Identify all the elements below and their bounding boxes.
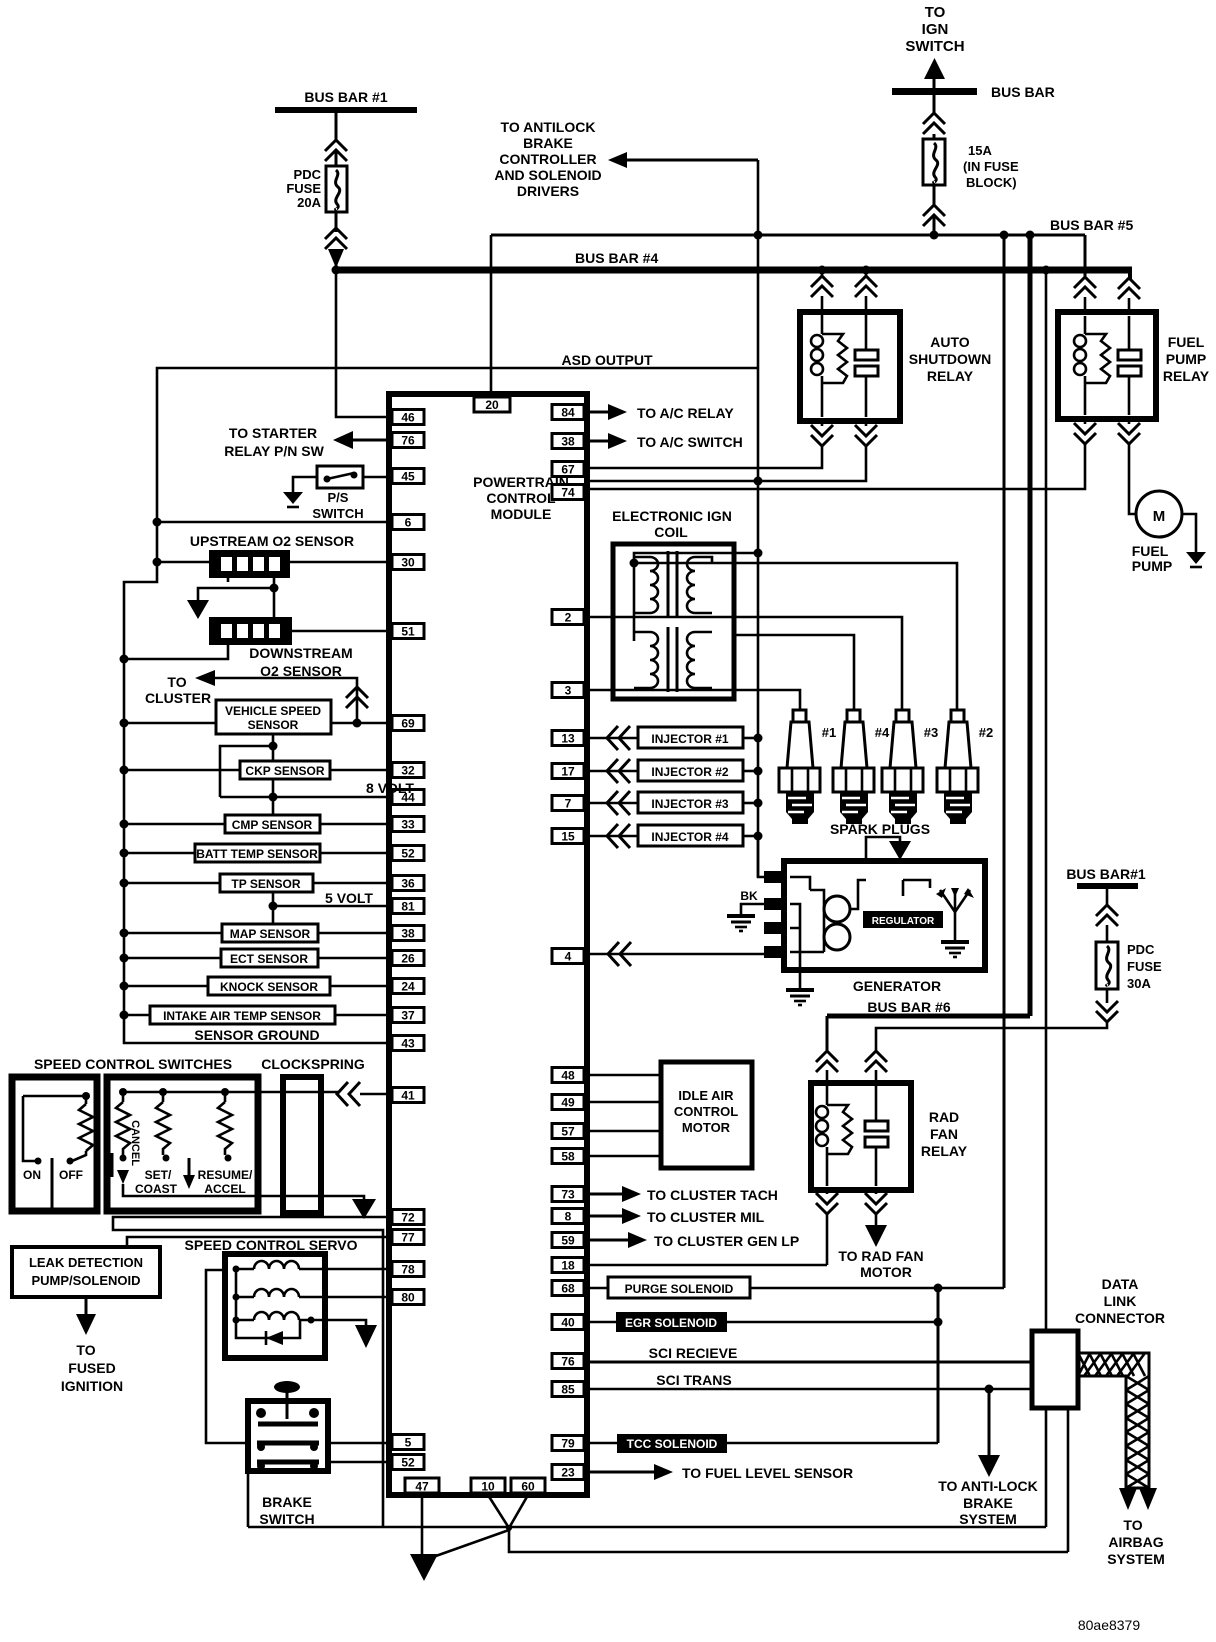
pin 47 (bottom) bbox=[405, 1478, 439, 1493]
ground (generator case) bbox=[786, 990, 814, 1005]
pin 3 (right) bbox=[552, 683, 584, 698]
svg-text:57: 57 bbox=[561, 1125, 575, 1139]
node dot bus5/x1004 bbox=[1000, 231, 1009, 240]
node BUS BAR #1 (top left) bbox=[275, 89, 417, 113]
pin 79 (right) bbox=[552, 1436, 584, 1451]
svg-text:CONTROLLER: CONTROLLER bbox=[499, 151, 596, 167]
wire vertical x1004 from bus5 down to purge solenoid line bbox=[1003, 235, 1006, 1288]
svg-text:ELECTRONIC IGN: ELECTRONIC IGN bbox=[612, 508, 732, 524]
label/wire SCI TRANS (pin 85) bbox=[584, 1372, 1032, 1389]
wire BK ground stub bbox=[740, 889, 764, 914]
pin 40 (right) bbox=[552, 1315, 584, 1330]
pin 49 (right) bbox=[552, 1095, 584, 1110]
pin 48 (right) bbox=[552, 1068, 584, 1083]
svg-text:TO FUEL LEVEL SENSOR: TO FUEL LEVEL SENSOR bbox=[682, 1465, 853, 1481]
svg-text:SENSOR: SENSOR bbox=[248, 718, 299, 732]
node dot SCI TRANS branch bbox=[985, 1385, 994, 1394]
svg-text:FUSE: FUSE bbox=[1127, 959, 1162, 974]
wire bus4 right corner down to fuel pump relay contact bbox=[1128, 270, 1132, 280]
node dot bus4/ASD coil leg bbox=[818, 266, 827, 275]
arrow down (pin 47 ground) bbox=[410, 1554, 438, 1581]
svg-text:68: 68 bbox=[561, 1282, 575, 1296]
svg-text:BATT TEMP SENSOR: BATT TEMP SENSOR bbox=[196, 847, 318, 861]
svg-text:IGNITION: IGNITION bbox=[61, 1378, 123, 1394]
svg-text:BK: BK bbox=[740, 889, 758, 903]
svg-text:36: 36 bbox=[401, 877, 415, 891]
svg-text:SCI RECIEVE: SCI RECIEVE bbox=[649, 1345, 738, 1361]
svg-text:CONTROL: CONTROL bbox=[486, 490, 556, 506]
svg-text:TO: TO bbox=[925, 4, 946, 21]
svg-text:3: 3 bbox=[565, 684, 572, 698]
svg-text:TCC SOLENOID: TCC SOLENOID bbox=[627, 1437, 718, 1451]
sensor VEHICLE SPEED SENSOR bbox=[120, 700, 393, 734]
svg-text:FUSE: FUSE bbox=[286, 181, 321, 196]
pin 45 (left) bbox=[392, 469, 424, 484]
svg-text:SPEED CONTROL SERVO: SPEED CONTROL SERVO bbox=[185, 1237, 358, 1253]
ground (P/S switch) bbox=[283, 492, 303, 507]
pin 5 (left) bbox=[392, 1435, 424, 1450]
pin 78 (left) bbox=[392, 1262, 424, 1277]
svg-text:INJECTOR #3: INJECTOR #3 bbox=[651, 797, 728, 811]
svg-text:60: 60 bbox=[521, 1480, 535, 1494]
svg-text:PUMP: PUMP bbox=[1132, 558, 1172, 574]
sensor MAP SENSOR bbox=[120, 924, 393, 942]
svg-text:13: 13 bbox=[561, 732, 575, 746]
svg-text:TO RAD FAN: TO RAD FAN bbox=[838, 1248, 923, 1264]
wire rad fan relay contact output to motor bbox=[875, 1190, 878, 1194]
svg-text:RELAY: RELAY bbox=[1163, 368, 1210, 384]
wire O2 signal to ground arrow bbox=[198, 588, 274, 601]
svg-text:20A: 20A bbox=[297, 195, 321, 210]
pin 2 (right) bbox=[552, 610, 584, 625]
connector chevron (clockspring, pin 41) bbox=[337, 1082, 360, 1106]
svg-text:BUS BAR#1: BUS BAR#1 bbox=[1066, 866, 1146, 882]
pin 77 (left) bbox=[392, 1230, 424, 1245]
svg-text:(IN FUSE: (IN FUSE bbox=[963, 159, 1019, 174]
svg-text:81: 81 bbox=[401, 900, 415, 914]
wire ASD relay contact output: down, left along y481 bbox=[865, 421, 868, 426]
arrow down TO RAD FAN MOTOR bbox=[838, 1225, 923, 1280]
svg-text:77: 77 bbox=[401, 1231, 415, 1245]
component SPEED CONTROL SERVO (3 solenoid coils + diode) bbox=[225, 1254, 325, 1358]
pin 59 (right) bbox=[552, 1233, 584, 1248]
component ELECTRONIC IGN COIL (dual transformer) bbox=[613, 544, 758, 699]
node dot coil feed on x758 bbox=[754, 549, 763, 558]
svg-text:AUTO: AUTO bbox=[930, 334, 970, 350]
arrows down TO AIRBAG SYSTEM bbox=[1107, 1488, 1165, 1567]
svg-text:FAN: FAN bbox=[930, 1126, 958, 1142]
pin 60 (bottom) bbox=[511, 1478, 545, 1493]
pin 57 (right) bbox=[552, 1124, 584, 1139]
arrow down TO ANTI-LOCK BRAKE SYSTEM bbox=[938, 1455, 1038, 1527]
svg-text:DATA: DATA bbox=[1102, 1276, 1139, 1292]
svg-text:LINK: LINK bbox=[1104, 1293, 1137, 1309]
svg-text:PUMP: PUMP bbox=[1166, 351, 1206, 367]
svg-text:45: 45 bbox=[401, 470, 415, 484]
node dot rail/pin6 bbox=[153, 518, 162, 527]
pin 44 (left) bbox=[392, 790, 424, 805]
node BUS BAR (crossbar) bbox=[892, 84, 1055, 100]
arrow down TO FUSED IGNITION bbox=[61, 1297, 123, 1394]
svg-text:TO: TO bbox=[1123, 1517, 1142, 1533]
sensor CKP SENSOR bbox=[120, 761, 393, 779]
svg-text:BUS BAR #5: BUS BAR #5 bbox=[1050, 217, 1133, 233]
svg-text:52: 52 bbox=[401, 1456, 415, 1470]
svg-text:CMP SENSOR: CMP SENSOR bbox=[232, 818, 313, 832]
connector chevron on cluster feed bbox=[346, 687, 368, 708]
svg-text:SCI TRANS: SCI TRANS bbox=[656, 1372, 731, 1388]
svg-text:ASD OUTPUT: ASD OUTPUT bbox=[562, 352, 653, 368]
svg-text:23: 23 bbox=[561, 1466, 575, 1480]
pin 20 (top) bbox=[474, 397, 510, 412]
node BUS BAR#1 (right) bbox=[1066, 866, 1146, 889]
wire pin 72 path bbox=[113, 1217, 392, 1527]
ground (generator BK) bbox=[727, 916, 755, 931]
pin 26 (left) bbox=[392, 951, 424, 966]
svg-text:BRAKE: BRAKE bbox=[523, 135, 573, 151]
svg-text:KNOCK SENSOR: KNOCK SENSOR bbox=[220, 980, 318, 994]
svg-text:8: 8 bbox=[565, 1210, 572, 1224]
node V junction bbox=[506, 1525, 512, 1531]
wire servo row3 to ground arrow bbox=[325, 1320, 366, 1327]
svg-text:INJECTOR #1: INJECTOR #1 bbox=[651, 732, 728, 746]
pin 15 (right) bbox=[552, 829, 584, 844]
sensor INTAKE AIR TEMP SENSOR bbox=[120, 1006, 393, 1024]
svg-text:73: 73 bbox=[561, 1188, 575, 1202]
connector chevron below fuse 20A bbox=[325, 228, 347, 249]
svg-text:BUS BAR #6: BUS BAR #6 bbox=[867, 999, 950, 1015]
svg-text:BUS BAR #4: BUS BAR #4 bbox=[575, 250, 658, 266]
pin 32 (left) bbox=[392, 763, 424, 778]
wire from bus bar #1 down to PDC fuse 20A bbox=[335, 113, 338, 140]
pin 81 (left) bbox=[392, 899, 424, 914]
wire bus5 right corner down to fuel pump relay coil bbox=[1084, 235, 1087, 278]
svg-text:UPSTREAM O2 SENSOR: UPSTREAM O2 SENSOR bbox=[190, 533, 354, 549]
pin 85 (right) bbox=[552, 1382, 584, 1397]
svg-text:AND SOLENOID: AND SOLENOID bbox=[494, 167, 601, 183]
svg-text:37: 37 bbox=[401, 1009, 415, 1023]
pin 43 (left) bbox=[392, 1036, 424, 1051]
svg-text:6: 6 bbox=[405, 516, 412, 530]
svg-text:RELAY P/N SW: RELAY P/N SW bbox=[224, 443, 324, 459]
svg-text:DOWNSTREAM: DOWNSTREAM bbox=[249, 645, 352, 661]
wire pin 6 from ASD rail bbox=[157, 521, 392, 524]
svg-text:TO: TO bbox=[76, 1342, 95, 1358]
wire vertical x938 bbox=[937, 1288, 940, 1443]
svg-text:MODULE: MODULE bbox=[491, 506, 552, 522]
wire bbox=[933, 134, 936, 139]
PCM bottom pin boxes bbox=[405, 1478, 545, 1494]
wire pin 47 down to ground arrow bbox=[421, 1495, 424, 1555]
wire pin 77 to leak detection pump bbox=[127, 1237, 392, 1247]
svg-text:AIRBAG: AIRBAG bbox=[1108, 1534, 1163, 1550]
pin 68 (right) bbox=[552, 1281, 584, 1296]
pin 23 (right) bbox=[552, 1465, 584, 1480]
svg-text:TO A/C RELAY: TO A/C RELAY bbox=[637, 405, 734, 421]
switch BRAKE SWITCH bbox=[248, 1381, 328, 1527]
node dot x758 on ASD output wire bbox=[754, 477, 763, 486]
spark plug #3 bbox=[882, 710, 938, 824]
svg-text:COAST: COAST bbox=[135, 1182, 178, 1196]
svg-text:33: 33 bbox=[401, 818, 415, 832]
svg-text:CANCEL: CANCEL bbox=[129, 1120, 141, 1166]
wire pin 2 to coil primary / spark plug #3 feed bbox=[588, 617, 902, 712]
svg-text:BRAKE: BRAKE bbox=[262, 1494, 312, 1510]
switch assembly SET/COAST RESUME/ACCEL CANCEL bbox=[107, 1077, 258, 1211]
svg-text:SPARK PLUGS: SPARK PLUGS bbox=[830, 821, 930, 837]
spark plug #1 bbox=[779, 710, 836, 824]
svg-text:76: 76 bbox=[561, 1355, 575, 1369]
wire coil secondary to spark plug #4 bbox=[734, 635, 854, 712]
wire rad fan relay coil return down to pin 18 wire bbox=[826, 1190, 829, 1194]
svg-text:IGN: IGN bbox=[922, 21, 949, 38]
wire bottom run (to data link connector leg A) bbox=[248, 1526, 1046, 1529]
label DOWNSTREAM O2 SENSOR bbox=[249, 645, 352, 679]
wire brake feed down to bottom run bbox=[247, 1471, 250, 1527]
svg-text:CONTROL: CONTROL bbox=[674, 1104, 738, 1119]
svg-text:MAP SENSOR: MAP SENSOR bbox=[230, 927, 311, 941]
wire downstream O2 to pin 51 bbox=[292, 630, 392, 633]
wire fuel pump relay contact output to fuel pump motor bbox=[1128, 419, 1131, 424]
svg-text:20: 20 bbox=[485, 398, 499, 412]
motor M1 FUEL PUMP bbox=[1132, 491, 1182, 574]
svg-text:30A: 30A bbox=[1127, 976, 1151, 991]
svg-text:GENERATOR: GENERATOR bbox=[853, 978, 941, 994]
wire SCI TRANS down to anti-lock arrow bbox=[988, 1389, 991, 1456]
wire brake switch to pin 52 bbox=[328, 1461, 392, 1464]
injector INJECTOR #4 bbox=[586, 824, 763, 848]
node dot bus4/ASD contact leg bbox=[862, 266, 871, 275]
svg-text:O2 SENSOR: O2 SENSOR bbox=[260, 663, 342, 679]
pin 74 (right) bbox=[552, 485, 584, 500]
svg-text:TO ANTI-LOCK: TO ANTI-LOCK bbox=[938, 1478, 1038, 1494]
label/arrow TO CLUSTER (vehicle speed) bbox=[145, 670, 357, 723]
injector INJECTOR #2 bbox=[586, 759, 763, 783]
svg-text:15A: 15A bbox=[968, 143, 992, 158]
wire brake switch to pin 5 bbox=[328, 1442, 392, 1445]
pin 67 (right) bbox=[552, 462, 584, 477]
svg-text:32: 32 bbox=[401, 764, 415, 778]
label/wire SCI RECIEVE (pin 76) bbox=[584, 1345, 1032, 1362]
svg-text:SWITCH: SWITCH bbox=[312, 506, 363, 521]
svg-text:49: 49 bbox=[561, 1096, 575, 1110]
svg-text:5 VOLT: 5 VOLT bbox=[325, 890, 373, 906]
pin 73 (right) bbox=[552, 1187, 584, 1202]
label TO ANTILOCK BRAKE CONTROLLER AND SOLENOID DRIVERS bbox=[494, 119, 601, 199]
node dot bus5/x758 bbox=[754, 231, 763, 240]
pin 13 (right) bbox=[552, 731, 584, 746]
sensor TP SENSOR bbox=[120, 874, 393, 892]
svg-text:26: 26 bbox=[401, 952, 415, 966]
svg-text:ECT SENSOR: ECT SENSOR bbox=[230, 952, 308, 966]
svg-text:SWITCH: SWITCH bbox=[259, 1511, 314, 1527]
svg-text:COIL: COIL bbox=[654, 524, 688, 540]
wire TP to MAP bbox=[272, 891, 275, 925]
svg-text:47: 47 bbox=[415, 1480, 429, 1494]
pin 52 (left) bbox=[392, 846, 424, 861]
pin 80 (left) bbox=[392, 1290, 424, 1305]
svg-text:FUEL: FUEL bbox=[1168, 334, 1205, 350]
wire below fuse 30A bbox=[1106, 989, 1109, 1003]
injector INJECTOR #3 bbox=[586, 791, 763, 815]
connector upstream O2 sensor bbox=[209, 550, 290, 578]
pin 76 (left) bbox=[392, 433, 424, 448]
wire servo row2 to pin 80 bbox=[325, 1296, 392, 1299]
fuse F2 15A (IN FUSE BLOCK) bbox=[923, 139, 1019, 190]
svg-text:PURGE SOLENOID: PURGE SOLENOID bbox=[625, 1282, 734, 1296]
pin 69 (left) bbox=[392, 716, 424, 731]
connector chevron below fuse 15A bbox=[923, 205, 945, 226]
wire fuel pump motor to ground bbox=[1182, 514, 1196, 552]
wire x758 rail into generator stub 1 bbox=[758, 836, 766, 877]
svg-text:TO CLUSTER GEN LP: TO CLUSTER GEN LP bbox=[654, 1233, 799, 1249]
arrow down (O2 ground) bbox=[187, 600, 209, 619]
svg-text:TO CLUSTER TACH: TO CLUSTER TACH bbox=[647, 1187, 778, 1203]
node dot VSS/cluster bbox=[353, 719, 362, 728]
node dot purge/x938 bbox=[934, 1284, 943, 1293]
node dot bus5/fuse15A bbox=[930, 231, 939, 240]
pin 46 (left) bbox=[392, 410, 424, 425]
wire VSS to CKP 8-volt feed bbox=[272, 734, 275, 762]
svg-text:ACCEL: ACCEL bbox=[204, 1182, 245, 1196]
svg-text:TO A/C SWITCH: TO A/C SWITCH bbox=[637, 434, 743, 450]
svg-text:#3: #3 bbox=[924, 725, 938, 740]
wire fuse 30A run to rad fan relay contact bbox=[876, 1022, 1107, 1052]
spark plug #2 bbox=[937, 710, 993, 824]
wire V junction down and right (to DLC leg B) bbox=[509, 1528, 1068, 1552]
svg-text:30: 30 bbox=[401, 556, 415, 570]
svg-text:OFF: OFF bbox=[59, 1168, 83, 1182]
svg-text:TO CLUSTER MIL: TO CLUSTER MIL bbox=[647, 1209, 765, 1225]
label 5 VOLT / wire pin 81 bbox=[273, 905, 392, 908]
wire pin20 feed: vertical from bus5 corner down to PCM pin 20 bbox=[490, 235, 493, 397]
svg-text:80ae8379: 80ae8379 bbox=[1078, 1617, 1141, 1633]
label/arrow TO STARTER RELAY P/N SW (pin 76 left) bbox=[224, 425, 392, 459]
svg-text:38: 38 bbox=[561, 435, 575, 449]
svg-text:18: 18 bbox=[561, 1259, 575, 1273]
svg-text:41: 41 bbox=[401, 1089, 415, 1103]
wire bbox=[335, 152, 338, 166]
arrow to antilock brake controller bbox=[608, 152, 627, 168]
label TO IGN SWITCH bbox=[905, 4, 964, 55]
svg-text:51: 51 bbox=[401, 625, 415, 639]
svg-text:2: 2 bbox=[565, 611, 572, 625]
svg-text:MOTOR: MOTOR bbox=[860, 1264, 912, 1280]
svg-text:INJECTOR #2: INJECTOR #2 bbox=[651, 765, 728, 779]
pin 8 (right) bbox=[552, 1209, 584, 1224]
pin 17 (right) bbox=[552, 764, 584, 779]
connector downstream O2 sensor bbox=[209, 617, 292, 645]
svg-text:SENSOR GROUND: SENSOR GROUND bbox=[194, 1027, 319, 1043]
svg-text:RAD: RAD bbox=[929, 1109, 959, 1125]
wire upstream O2 bottom-left pin down to rail jog bbox=[227, 578, 230, 582]
connector chevron above fuse 20A bbox=[325, 140, 347, 161]
wire upstream O2 to pin 30 bbox=[157, 561, 209, 564]
pin 38 (right) bbox=[552, 434, 584, 449]
wire vertical x1030 thick from bus5 down to bus bar #6 bbox=[1028, 235, 1033, 1016]
arrow TO A/C RELAY (pin 84) bbox=[584, 404, 734, 421]
pin 4 (right) bbox=[552, 949, 584, 964]
PCM right pin boxes bbox=[552, 405, 584, 1480]
pin 37 (left) bbox=[392, 1008, 424, 1023]
svg-text:PDC: PDC bbox=[1127, 942, 1155, 957]
svg-text:40: 40 bbox=[561, 1316, 575, 1330]
svg-text:INJECTOR #4: INJECTOR #4 bbox=[651, 830, 728, 844]
solenoid PURGE SOLENOID (pin 68) bbox=[584, 1277, 1004, 1298]
component LEAK DETECTION PUMP/SOLENOID bbox=[12, 1247, 160, 1297]
svg-text:79: 79 bbox=[561, 1437, 575, 1451]
arrow TO CLUSTER TACH (pin 73) bbox=[584, 1186, 778, 1203]
svg-text:SWITCH: SWITCH bbox=[905, 38, 964, 55]
node dot rail/downstream bbox=[120, 655, 129, 664]
wire vertical feed x758 (antilock/ASD rail) bbox=[757, 160, 760, 877]
module PCM POWERTRAIN CONTROL MODULE bbox=[389, 394, 587, 1495]
svg-text:48: 48 bbox=[561, 1069, 575, 1083]
svg-text:FUEL: FUEL bbox=[1132, 543, 1169, 559]
wire pin 41 through clockspring bbox=[258, 1091, 339, 1094]
PCM left pin boxes bbox=[392, 410, 424, 1470]
wire CKP to CMP bbox=[272, 779, 275, 816]
node dot at O2 interconnect bbox=[270, 584, 279, 593]
pin 84 (right) bbox=[552, 405, 584, 420]
relay K1 AUTO SHUTDOWN RELAY bbox=[800, 270, 991, 421]
svg-text:PDC: PDC bbox=[294, 167, 322, 182]
sensor ECT SENSOR bbox=[120, 949, 393, 967]
svg-text:MOTOR: MOTOR bbox=[682, 1120, 731, 1135]
svg-text:EGR SOLENOID: EGR SOLENOID bbox=[625, 1316, 717, 1330]
pin 30 (left) bbox=[392, 555, 424, 570]
wire below fuse 20A bbox=[335, 212, 338, 232]
spark plug #4 bbox=[833, 710, 890, 824]
svg-text:INTAKE AIR TEMP SENSOR: INTAKE AIR TEMP SENSOR bbox=[163, 1009, 321, 1023]
svg-text:69: 69 bbox=[401, 717, 415, 731]
wire upstream O2 bottom-right pin down to downstream O2 bbox=[273, 578, 276, 617]
label ELECTRONIC IGN COIL bbox=[612, 508, 732, 540]
svg-text:RELAY: RELAY bbox=[927, 368, 974, 384]
svg-text:SYSTEM: SYSTEM bbox=[959, 1511, 1017, 1527]
fuse F3 PDC FUSE 30A bbox=[1096, 942, 1162, 991]
wire pin 18 to rad fan relay bbox=[584, 1264, 827, 1267]
svg-text:TO STARTER: TO STARTER bbox=[229, 425, 317, 441]
svg-text:4: 4 bbox=[565, 950, 572, 964]
svg-text:80: 80 bbox=[401, 1291, 415, 1305]
arrow TO CLUSTER GEN LP (pin 59) bbox=[584, 1232, 799, 1249]
wire vertical x1046 from bus4 down to data link connector bbox=[1045, 270, 1048, 1331]
connector clockspring CLOCKSPRING bbox=[283, 1077, 321, 1213]
connector chevron (pin 4) bbox=[608, 942, 631, 966]
pin 10 (bottom) bbox=[471, 1478, 505, 1493]
label 8 VOLT / wire pin 44 bbox=[220, 796, 392, 799]
wire pin 4 to generator bbox=[586, 953, 764, 956]
wire fuel pump relay coil return: down, left to PCM pin 74 bbox=[1084, 419, 1087, 424]
arrow down into generator (spark plugs note) bbox=[866, 837, 900, 861]
component IDLE AIR CONTROL MOTOR bbox=[584, 1062, 752, 1168]
wire below bus bar bbox=[933, 95, 936, 114]
switch P/S SWITCH (pin 45) bbox=[293, 466, 392, 521]
sensor KNOCK SENSOR bbox=[120, 977, 393, 995]
ground (fuel pump) bbox=[1186, 552, 1206, 567]
switch assembly ON/OFF (speed control) bbox=[12, 1077, 97, 1211]
node junction dot at fuse 20A / bus bar #4 bbox=[332, 266, 341, 275]
wire ASD relay coil return: down, left to PCM pin 67 bbox=[821, 421, 824, 426]
node dot bus5/x1030 bbox=[1026, 231, 1035, 240]
pin 51 (left) bbox=[392, 624, 424, 639]
svg-text:SPEED CONTROL SWITCHES: SPEED CONTROL SWITCHES bbox=[34, 1056, 232, 1072]
svg-text:#2: #2 bbox=[979, 725, 993, 740]
solenoid EGR SOLENOID (pin 40) bbox=[584, 1312, 938, 1332]
svg-text:TP SENSOR: TP SENSOR bbox=[231, 877, 300, 891]
wire bus bar#1 down to fuse 30A bbox=[1106, 889, 1109, 906]
